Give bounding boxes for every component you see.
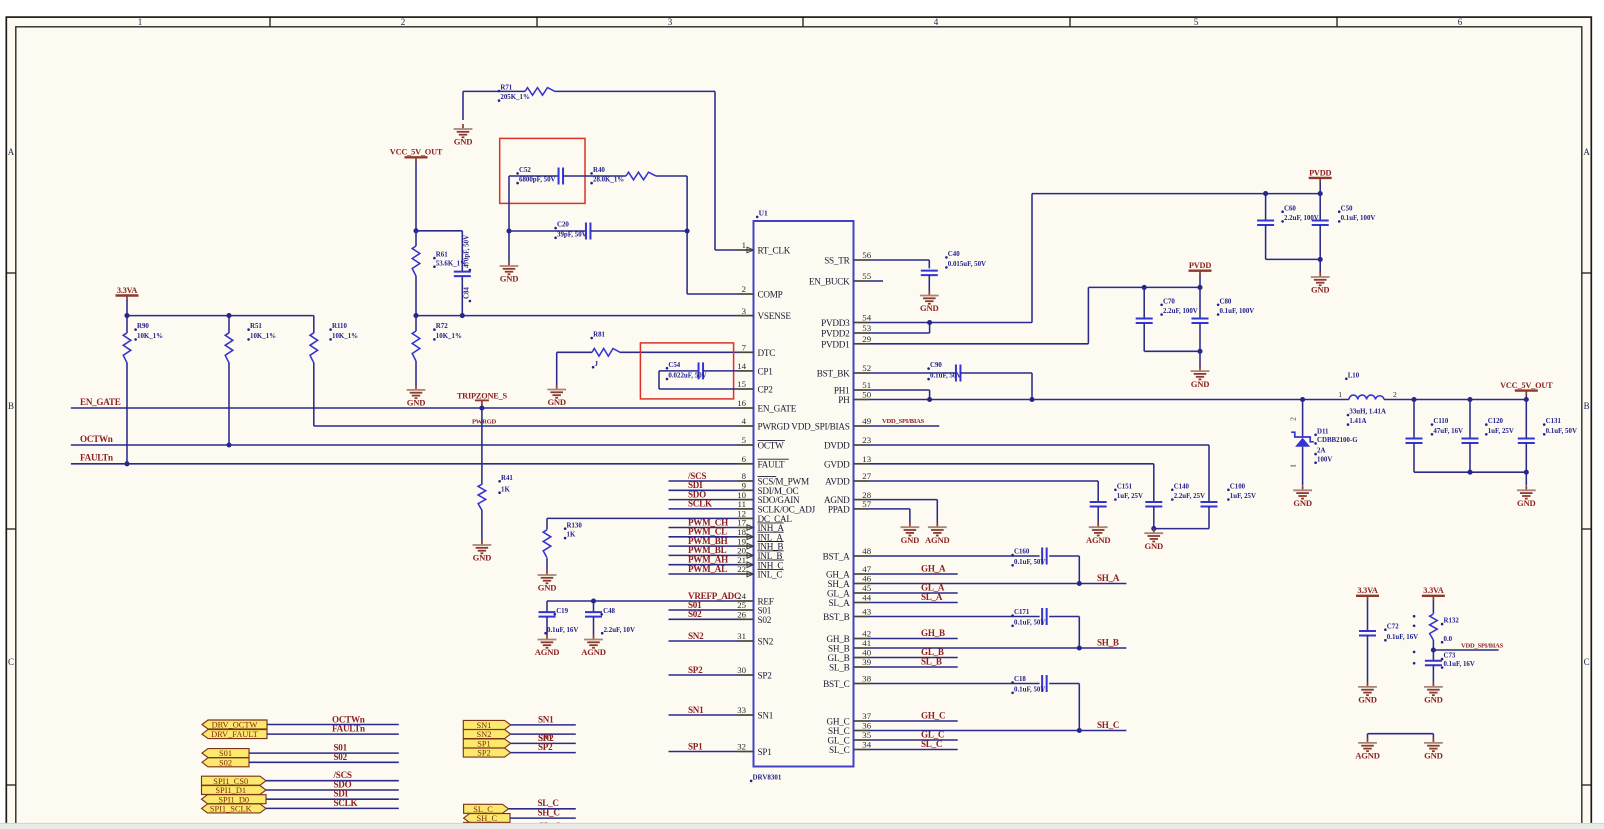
pin 5 OCTW: [738, 444, 754, 446]
svg-text:DRV_FAULT: DRV_FAULT: [211, 730, 258, 739]
svg-text:1.41A: 1.41A: [1349, 418, 1366, 425]
port SN1: [463, 720, 510, 729]
svg-text:0.022uF, 50V: 0.022uF, 50V: [668, 373, 706, 380]
wire S02: [669, 618, 738, 620]
svg-text:SS_TR: SS_TR: [824, 256, 850, 266]
svg-text:S01: S01: [219, 749, 232, 758]
wire SN2: [669, 640, 738, 642]
svg-text:6: 6: [742, 454, 747, 464]
svg-text:37: 37: [862, 711, 871, 721]
capacitor C52: [509, 175, 559, 177]
svg-text:L10: L10: [1348, 372, 1360, 379]
svg-text:C: C: [8, 657, 14, 667]
left ruler ticks: [6, 272, 16, 274]
svg-text:SP1: SP1: [688, 741, 703, 751]
wire PWM_CH: [669, 527, 738, 529]
svg-text:FAULTn: FAULTn: [332, 724, 365, 734]
svg-text:49: 49: [862, 416, 871, 426]
svg-text:7: 7: [742, 343, 747, 353]
svg-text:2: 2: [1289, 417, 1298, 421]
svg-text:PVDD2: PVDD2: [821, 329, 850, 339]
svg-text:R110: R110: [332, 323, 347, 330]
wire SH_B: [870, 647, 1127, 649]
svg-text:PVDD1: PVDD1: [821, 339, 850, 349]
ground below R81: [556, 352, 558, 384]
svg-text:3.3VA: 3.3VA: [1357, 586, 1377, 595]
svg-text:0.1uF, 50V: 0.1uF, 50V: [1014, 619, 1045, 626]
svg-text:SCLK: SCLK: [334, 798, 358, 808]
pin 28 AGND: [854, 499, 870, 501]
svg-text:2.2uF, 10V: 2.2uF, 10V: [604, 627, 635, 634]
wire SL_B: [870, 666, 958, 668]
svg-text:44: 44: [862, 593, 871, 603]
svg-text:U1: U1: [759, 209, 768, 218]
svg-text:GND: GND: [1424, 751, 1443, 761]
ground below C40: [928, 291, 930, 296]
svg-text:R72: R72: [436, 323, 448, 330]
svg-text:47uF, 16V: 47uF, 16V: [1433, 428, 1463, 435]
svg-text:1uF, 25V: 1uF, 25V: [1117, 493, 1143, 500]
svg-text:CDBB2100-G: CDBB2100-G: [1317, 437, 1358, 444]
svg-text:GND: GND: [1358, 695, 1377, 705]
svg-text:SN2: SN2: [758, 637, 774, 647]
svg-text:R81: R81: [593, 332, 605, 339]
wire GH_B: [870, 638, 958, 640]
svg-text:SL_B: SL_B: [829, 663, 850, 673]
ground below D11: [1302, 485, 1304, 490]
pin 42 GH_B: [854, 638, 870, 640]
svg-text:4: 4: [934, 17, 939, 27]
svg-text:GL_B: GL_B: [828, 653, 850, 663]
svg-text:DRV8301: DRV8301: [753, 774, 782, 782]
wire PWM_AL: [669, 573, 738, 575]
svg-text:J: J: [595, 361, 599, 368]
wire GL_B: [870, 657, 958, 659]
svg-text:FAULT: FAULT: [758, 459, 785, 469]
capacitor C20: [509, 230, 586, 232]
wire SN1: [669, 714, 738, 716]
svg-text:R130: R130: [567, 522, 583, 529]
pin 25 S01: [738, 609, 754, 611]
svg-text:10K_1%: 10K_1%: [137, 333, 163, 340]
pin 2 COMP: [738, 293, 754, 295]
wire EN_BUCK stub: [870, 280, 884, 282]
svg-text:1: 1: [1289, 464, 1298, 468]
svg-text:16: 16: [737, 398, 746, 408]
svg-text:10K_1%: 10K_1%: [250, 333, 276, 340]
svg-text:2: 2: [742, 284, 746, 294]
svg-text:S02: S02: [334, 752, 348, 762]
svg-text:GH_B: GH_B: [827, 634, 850, 644]
pin 15 CP2: [738, 388, 754, 390]
svg-text:28.0K_1%: 28.0K_1%: [593, 177, 624, 184]
svg-text:SN1: SN1: [538, 714, 554, 724]
ground below R41: [481, 540, 483, 545]
svg-text:51: 51: [862, 380, 871, 390]
svg-text:29: 29: [862, 334, 871, 344]
svg-text:36: 36: [862, 721, 871, 731]
svg-text:GND: GND: [1191, 379, 1210, 389]
svg-text:C73: C73: [1444, 653, 1456, 660]
svg-text:RT_CLK: RT_CLK: [758, 246, 791, 256]
wire PH row: [870, 399, 1350, 401]
capacitor C19: [546, 601, 548, 612]
svg-text:GND: GND: [1145, 541, 1164, 551]
wire PVDD3: [870, 322, 930, 324]
pin 18 INL_A: [738, 536, 754, 538]
svg-text:C120: C120: [1488, 418, 1504, 425]
wire SDI: [669, 489, 738, 491]
pin 9 SDI/M_OC: [738, 489, 754, 491]
svg-text:C18: C18: [1014, 676, 1026, 683]
wire BST_A: [870, 555, 1040, 557]
svg-text:CP1: CP1: [758, 367, 774, 377]
svg-text:SP2: SP2: [688, 665, 703, 675]
svg-text:GND: GND: [920, 303, 939, 313]
port SP2: [463, 748, 510, 757]
svg-text:43: 43: [862, 607, 871, 617]
svg-text:AGND: AGND: [1086, 535, 1111, 545]
wire C52 left down: [508, 176, 510, 231]
svg-text:1: 1: [138, 17, 143, 27]
svg-text:0.015uF, 50V: 0.015uF, 50V: [948, 261, 986, 268]
svg-text:PVDD: PVDD: [1189, 261, 1211, 270]
svg-text:C70: C70: [1163, 298, 1175, 305]
wire BST_B: [870, 616, 1040, 618]
pin 49 VDD_SPI/BIAS out: [854, 425, 870, 427]
svg-text:32: 32: [737, 742, 746, 752]
capacitor C140: [1145, 501, 1162, 503]
svg-text:GND: GND: [454, 137, 473, 147]
resistor R132: [1430, 614, 1438, 640]
svg-text:SN2: SN2: [476, 730, 491, 739]
svg-text:53: 53: [862, 323, 871, 333]
svg-text:GND: GND: [538, 583, 557, 593]
svg-text:34: 34: [862, 740, 871, 750]
pin 22 INL_C: [738, 573, 754, 575]
pin 38 BST_C: [854, 683, 870, 685]
svg-text:0.1uF, 50V: 0.1uF, 50V: [1014, 686, 1045, 693]
svg-text:OCTW: OCTW: [758, 441, 785, 451]
svg-text:31: 31: [737, 631, 746, 641]
svg-text:AGND: AGND: [535, 647, 560, 657]
svg-text:3.3VA: 3.3VA: [117, 286, 137, 295]
svg-text:10K_1%: 10K_1%: [436, 333, 462, 340]
svg-text:0.1uF, 16V: 0.1uF, 16V: [547, 627, 578, 634]
ground below C72: [1367, 682, 1369, 687]
svg-text:40: 40: [862, 648, 871, 658]
svg-text:5: 5: [1194, 17, 1199, 27]
ground AGND below pin 28: [936, 522, 938, 527]
svg-text:SPI1_D1: SPI1_D1: [215, 786, 246, 795]
wire GL_A: [870, 592, 958, 594]
svg-text:0.1uF, 16V: 0.1uF, 16V: [1444, 661, 1475, 668]
svg-text:SN1: SN1: [758, 711, 774, 721]
svg-text:33uH, 1.41A: 33uH, 1.41A: [1349, 409, 1386, 416]
pin 52 BST_BK: [854, 372, 870, 374]
pin 10 SDO/GAIN: [738, 499, 754, 501]
pin 11 SCLK/OC_ADJ: [738, 508, 754, 510]
svg-text:INL_C: INL_C: [758, 570, 783, 580]
wire PWM_CL: [669, 536, 738, 538]
svg-text:GH_C: GH_C: [921, 711, 945, 721]
svg-text:GL_C: GL_C: [828, 736, 850, 746]
wire PVDD1: [870, 343, 1089, 345]
port DRV_FAULT: [202, 730, 267, 739]
svg-text:EN_GATE: EN_GATE: [80, 397, 121, 407]
svg-text:C151: C151: [1117, 483, 1133, 490]
wire PWM_BL: [669, 554, 738, 556]
svg-text:AGND: AGND: [1355, 751, 1380, 761]
svg-text:VDD_SPI/BIAS: VDD_SPI/BIAS: [882, 418, 925, 425]
wire S01: [669, 609, 738, 611]
capacitor C72: [1359, 630, 1376, 632]
wire SS_TR: [870, 259, 930, 261]
svg-text:GND: GND: [500, 274, 519, 284]
svg-text:100V: 100V: [1317, 456, 1332, 463]
svg-text:DTC: DTC: [758, 348, 776, 358]
svg-text:41: 41: [862, 638, 871, 648]
svg-text:SL_C: SL_C: [538, 798, 559, 808]
svg-text:AGND: AGND: [581, 647, 606, 657]
svg-text:C80: C80: [1220, 298, 1232, 305]
wire VREFP_ADC row: [547, 600, 738, 602]
resistor R51: [228, 316, 230, 333]
svg-text:R40: R40: [593, 167, 605, 174]
wire PWM_BH: [669, 545, 738, 547]
svg-text:R41: R41: [501, 475, 513, 482]
svg-text:S02: S02: [688, 609, 702, 619]
svg-text:2: 2: [401, 17, 406, 27]
svg-text:23: 23: [862, 435, 871, 445]
ground below R72: [415, 385, 417, 390]
svg-text:SL_A: SL_A: [829, 598, 851, 608]
wire VDD_SPI/BIAS: [870, 425, 940, 427]
svg-text:C100: C100: [1230, 483, 1246, 490]
svg-text:C84: C84: [464, 287, 471, 299]
capacitor C120: [1469, 400, 1471, 439]
wire R71 left: [463, 90, 525, 92]
pin 35 GL_C: [854, 739, 870, 741]
port SPI1_D0: [202, 795, 267, 804]
pin 12 DC_CAL: [738, 517, 754, 519]
ground AGND below C151: [1097, 522, 1099, 527]
svg-text:SH_C: SH_C: [538, 807, 560, 817]
capacitor C70: [1143, 287, 1145, 318]
svg-text:1: 1: [742, 240, 746, 250]
svg-text:1uF, 25V: 1uF, 25V: [1488, 428, 1514, 435]
svg-text:C: C: [1584, 657, 1590, 667]
svg-text:D11: D11: [1317, 428, 1329, 435]
svg-text:PWRGD: PWRGD: [472, 418, 497, 425]
resistor R72: [415, 316, 417, 331]
pin 6 FAULT: [738, 463, 754, 465]
resistor R61: [415, 231, 417, 246]
svg-text:1K: 1K: [567, 532, 576, 539]
pin 1 RT_CLK: [738, 249, 754, 251]
svg-text:B: B: [1584, 401, 1590, 411]
wire BST_BK: [870, 372, 957, 374]
pin 45 GL_A: [854, 592, 870, 594]
right ruler ticks: [1582, 272, 1591, 274]
svg-text:0.1uF, 50V: 0.1uF, 50V: [930, 373, 961, 380]
svg-text:A: A: [8, 147, 15, 157]
svg-text:C72: C72: [1387, 623, 1399, 630]
capacitor C18: [1041, 675, 1043, 692]
svg-text:COMP: COMP: [758, 290, 783, 300]
wire to top rail: [930, 322, 1032, 324]
svg-text:SPI1_CS0: SPI1_CS0: [213, 777, 248, 786]
svg-text:SCLK/OC_ADJ: SCLK/OC_ADJ: [758, 505, 816, 515]
svg-text:2.2uF, 25V: 2.2uF, 25V: [1174, 493, 1205, 500]
capacitor C100: [1201, 501, 1218, 503]
svg-text:0.1uF, 100V: 0.1uF, 100V: [1220, 308, 1255, 315]
svg-text:GND: GND: [547, 397, 566, 407]
svg-text:6800pF, 50V: 6800pF, 50V: [519, 177, 556, 184]
wire SL_C: [870, 749, 958, 751]
wire 3.3VA row: [127, 315, 314, 317]
wire /SCS: [669, 480, 738, 482]
ground below C50: [1319, 272, 1321, 277]
pin 41 SH_B: [854, 647, 870, 649]
svg-text:C140: C140: [1174, 483, 1190, 490]
capacitor C80: [1199, 287, 1201, 318]
pin 20 INL_B: [738, 554, 754, 556]
wire SCLK: [669, 508, 738, 510]
ground below pin 57: [909, 522, 911, 527]
svg-text:56: 56: [862, 250, 871, 260]
svg-text:GND: GND: [473, 553, 492, 563]
svg-text:DRV_OCTW: DRV_OCTW: [212, 721, 258, 730]
wire AGND pin28: [870, 499, 938, 501]
window scrollbar strip: [0, 823, 1604, 829]
wire FAULTn row: [71, 463, 738, 465]
svg-text:30: 30: [737, 665, 746, 675]
pin 37 GH_C: [854, 720, 870, 722]
svg-text:OCTWn: OCTWn: [80, 434, 113, 444]
svg-text:205K_1%: 205K_1%: [500, 94, 530, 101]
svg-text:47: 47: [862, 564, 871, 574]
pin 54 PVDD3: [854, 322, 870, 324]
diode D11: [1302, 400, 1304, 438]
wire C140/C100 bottom rail: [1154, 528, 1209, 530]
svg-text:GND: GND: [1293, 498, 1312, 508]
ground below C73: [1432, 682, 1434, 687]
svg-text:SH_C: SH_C: [828, 726, 850, 736]
marker dots: [1413, 615, 1416, 618]
capacitor C160: [1041, 548, 1043, 565]
svg-text:45: 45: [862, 583, 871, 593]
svg-text:11: 11: [738, 499, 746, 509]
wire L10 to VCC: [1384, 399, 1526, 401]
ground below R130: [546, 570, 548, 575]
wire R40 to COMP: [656, 175, 687, 177]
svg-text:SPI1_D0: SPI1_D0: [218, 795, 249, 804]
svg-text:VCC_5V_OUT: VCC_5V_OUT: [390, 148, 443, 157]
wire to C84 top: [416, 230, 462, 232]
port SPI1_D1: [202, 786, 267, 795]
svg-text:SL_C: SL_C: [921, 739, 942, 749]
svg-text:GND: GND: [1311, 285, 1330, 295]
svg-text:6: 6: [1458, 17, 1463, 27]
svg-text:VCC_5V_OUT: VCC_5V_OUT: [1500, 381, 1553, 390]
capacitor C151: [1090, 501, 1107, 503]
capacitor C73: [1432, 650, 1434, 661]
wire SH_C: [870, 730, 1127, 732]
svg-text:C20: C20: [557, 222, 569, 229]
ground GND tie: [1432, 738, 1434, 743]
svg-text:54: 54: [862, 313, 871, 323]
port GL_C partial: [464, 822, 510, 828]
svg-text:26: 26: [737, 610, 746, 620]
svg-text:BST_A: BST_A: [823, 552, 850, 562]
svg-text:SH_A: SH_A: [828, 579, 851, 589]
svg-text:5: 5: [742, 435, 747, 445]
svg-text:GH_C: GH_C: [827, 717, 850, 727]
ground below C131: [1525, 485, 1527, 490]
svg-text:57: 57: [862, 499, 871, 509]
svg-text:35: 35: [862, 730, 871, 740]
svg-text:C90: C90: [930, 362, 942, 369]
ground AGND below C48: [593, 635, 595, 640]
svg-text:470pF, 50V: 470pF, 50V: [464, 235, 471, 268]
wire GL_C: [870, 739, 958, 741]
svg-text:GH_B: GH_B: [921, 628, 945, 638]
svg-text:C160: C160: [1014, 549, 1030, 556]
svg-text:0.1uF, 50V: 0.1uF, 50V: [1546, 428, 1577, 435]
capacitor C40: [928, 260, 930, 268]
resistor R110: [313, 316, 315, 333]
pin 33 SN1: [738, 714, 754, 716]
capacitor C48: [591, 598, 596, 603]
wire C70/C80 bottom rail: [1144, 350, 1200, 352]
svg-text:A: A: [1583, 147, 1590, 157]
svg-text:GND: GND: [901, 535, 920, 545]
capacitor C90: [955, 365, 957, 382]
svg-text:SP1: SP1: [477, 740, 491, 749]
svg-text:SN1: SN1: [476, 721, 491, 730]
pin 13 GVDD: [854, 463, 870, 465]
wire SP2: [669, 674, 738, 676]
pin 3 VSENSE: [738, 315, 754, 317]
capacitor C110: [1413, 400, 1415, 439]
svg-text:C60: C60: [1284, 205, 1296, 212]
svg-text:C54: C54: [668, 362, 680, 369]
svg-text:SN2: SN2: [688, 631, 704, 641]
port SP1: [463, 739, 510, 748]
port SPI1_SCLK: [202, 804, 267, 813]
svg-text:R61: R61: [436, 252, 448, 259]
svg-text:C52: C52: [519, 167, 531, 174]
pin 31 SN2: [738, 640, 754, 642]
wire C60/C50 bottom rail: [1266, 258, 1321, 260]
svg-text:SH_A: SH_A: [1097, 573, 1120, 583]
op-amp U1: [754, 221, 854, 767]
svg-text:3.3VA: 3.3VA: [1423, 586, 1443, 595]
svg-text:GH_A: GH_A: [826, 570, 850, 580]
pin 14 CP1: [738, 370, 754, 372]
resistor R41: [481, 408, 483, 485]
svg-text:GVDD: GVDD: [824, 459, 850, 469]
resistor R71: [525, 88, 555, 96]
wire DVDD to C100: [870, 444, 1210, 446]
svg-text:CP2: CP2: [758, 385, 774, 395]
resistor R90: [126, 316, 128, 333]
svg-text:R51: R51: [250, 323, 262, 330]
pin 32 SP1: [738, 751, 754, 753]
pin 19 INH_B: [738, 545, 754, 547]
node VDD_SPI/BIAS: [1431, 647, 1436, 652]
